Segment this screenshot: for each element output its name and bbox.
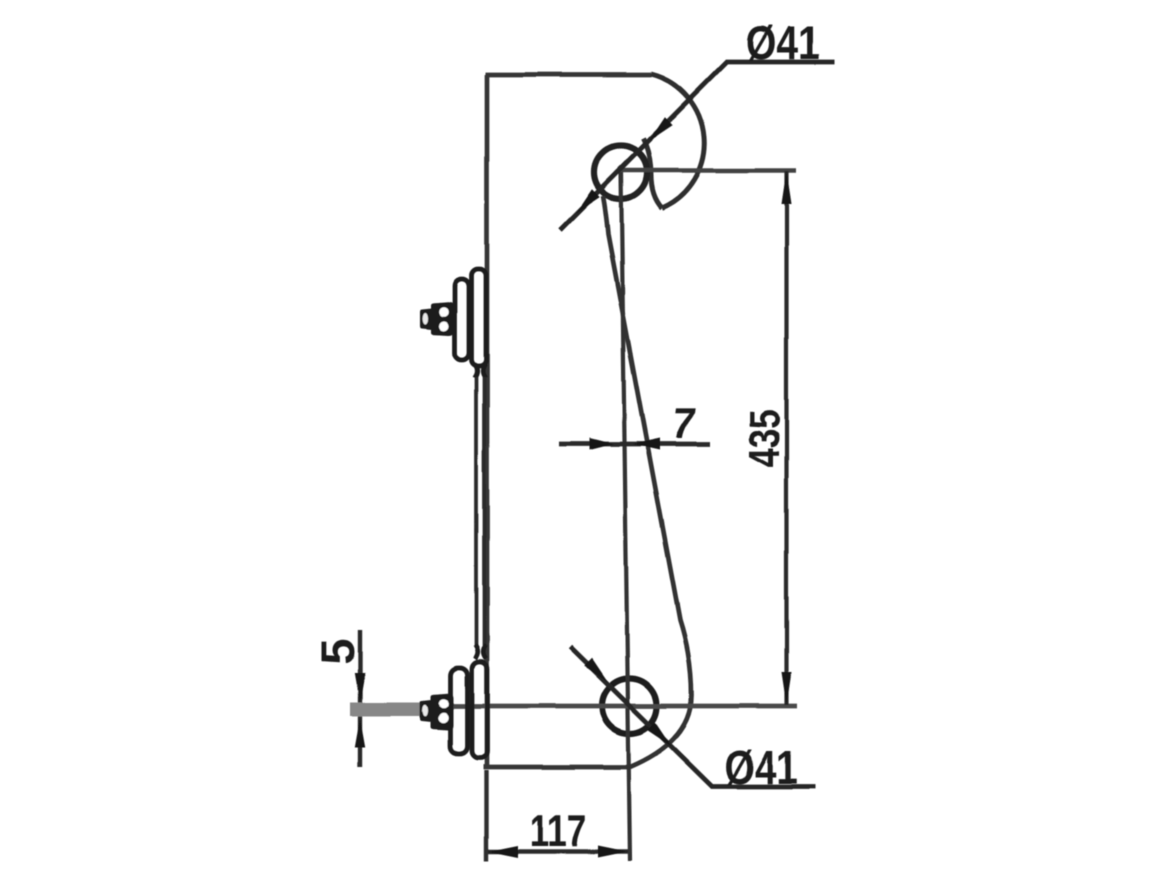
- dimension line 7: [559, 442, 710, 447]
- svg-text:Ø41: Ø41: [746, 18, 820, 70]
- arrow 5 lower: [355, 718, 365, 748]
- plate bottom edge: [484, 765, 631, 770]
- dimension line 5: [358, 630, 362, 767]
- hook inner slot curve: [643, 139, 662, 208]
- arrow 435 bottom: [782, 672, 792, 706]
- leader top Ø41: [560, 62, 834, 230]
- svg-text:7: 7: [669, 400, 700, 448]
- strap slant right edge: [603, 196, 692, 767]
- strip neck bottom: [475, 645, 486, 659]
- leader bottom arrow lower: [647, 722, 671, 746]
- arrow 117 left: [489, 846, 519, 858]
- arrow 7 left: [590, 438, 614, 450]
- plate top edge: [486, 72, 652, 77]
- leader bottom Ø41: [570, 647, 815, 787]
- dimension line 117: [488, 849, 628, 854]
- arrow 117 right: [598, 846, 628, 858]
- vertical centerline: [621, 172, 630, 861]
- top extension line: [620, 168, 796, 173]
- bolt head top: [431, 302, 454, 335]
- strip rails: [476, 377, 484, 648]
- arrow 7 right: [633, 438, 660, 450]
- plate left edge: [485, 75, 490, 768]
- arrow 435 top: [782, 171, 792, 205]
- leader bottom arrow upper: [584, 658, 608, 682]
- svg-text:Ø41: Ø41: [725, 742, 798, 794]
- dimension line 435: [784, 171, 788, 705]
- strip neck top: [475, 364, 486, 378]
- bottom hole circle: [602, 679, 657, 734]
- washer A bottom: [451, 668, 468, 754]
- bolt shaft bottom: [350, 703, 421, 717]
- arrow 5 upper: [355, 673, 365, 703]
- bottom extension line: [421, 704, 797, 709]
- leader top arrow upper: [649, 117, 673, 141]
- leader top arrow lower: [576, 189, 600, 213]
- extension line 117 left: [484, 770, 488, 861]
- svg-text:5: 5: [311, 638, 364, 664]
- washer A top: [455, 279, 470, 360]
- washer B top: [472, 269, 487, 366]
- washer B bottom: [472, 662, 488, 758]
- hook outer arc: [651, 74, 705, 208]
- top hole circle: [594, 146, 647, 199]
- svg-text:435: 435: [741, 409, 789, 468]
- bolt head bottom: [431, 693, 454, 730]
- svg-text:117: 117: [530, 805, 587, 856]
